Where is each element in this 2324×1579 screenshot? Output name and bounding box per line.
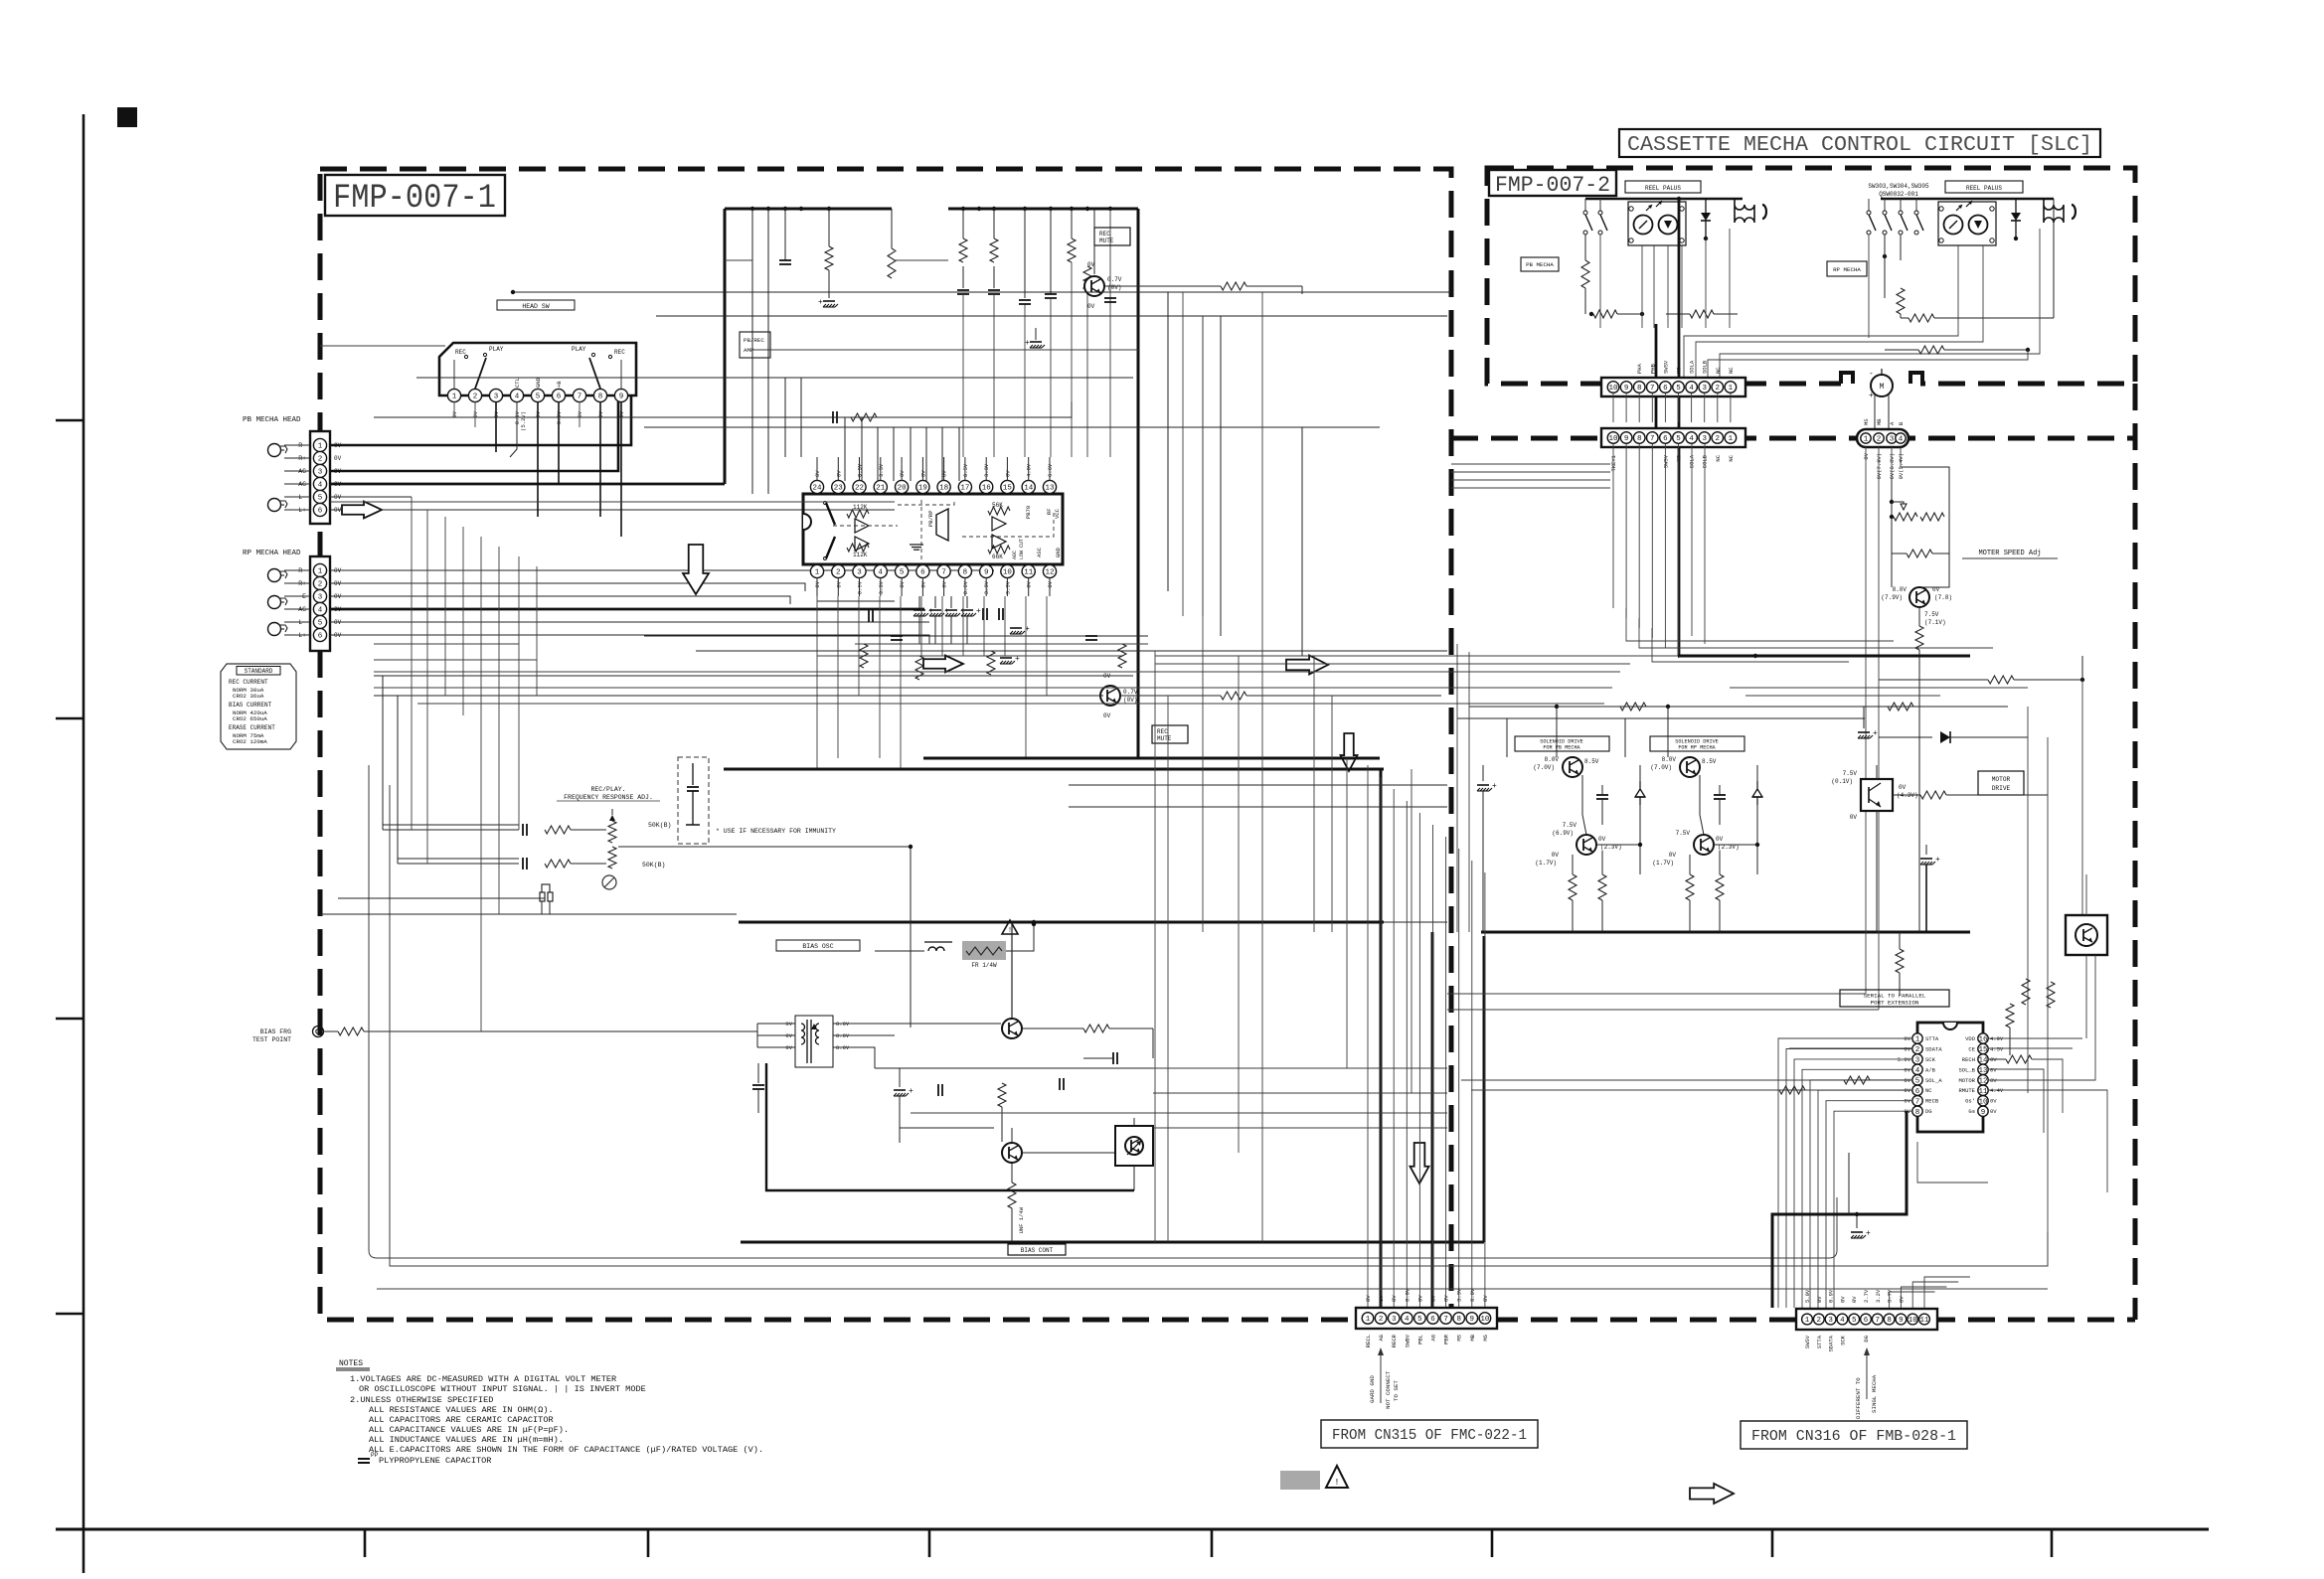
resistor near serial IC 2	[1896, 949, 1904, 973]
svg-text:+: +	[909, 1087, 913, 1096]
resistor solenoid RP 2	[1716, 874, 1724, 900]
svg-text:DIFFERENT TO: DIFFERENT TO	[1855, 1377, 1862, 1419]
svg-text:CRO2 120mA: CRO2 120mA	[233, 738, 267, 745]
wire PB pin6 line	[330, 509, 895, 511]
svg-text:REC CURRENT: REC CURRENT	[229, 679, 268, 686]
svg-text:STTA: STTA	[1816, 1335, 1823, 1348]
svg-text:2.UNLESS OTHERWISE SPECIFIED: 2.UNLESS OTHERWISE SPECIFIED	[350, 1395, 493, 1405]
label box HEAD SW	[497, 300, 575, 310]
svg-text:10: 10	[1978, 1098, 1988, 1106]
resistor right 2	[2047, 982, 2055, 1008]
wire reel bus left	[1585, 198, 1743, 201]
wire mesh left horizontals	[374, 643, 519, 645]
svg-text:FROM CN315 OF FMC-022-1: FROM CN315 OF FMC-022-1	[1332, 1428, 1527, 1444]
svg-text:8: 8	[1637, 385, 1642, 393]
svg-text:REC: REC	[1157, 728, 1168, 735]
connector motor 4-pin	[1857, 429, 1909, 447]
wire loom horizontal pair	[320, 913, 737, 915]
svg-text:CRO2 650uA: CRO2 650uA	[233, 715, 267, 722]
optocoupler reel RP	[1938, 202, 1996, 245]
wire Q4	[1022, 1152, 1115, 1154]
resistor mid R9	[915, 656, 923, 680]
wire thick vertical CN315 pin6	[1431, 932, 1434, 1308]
wire stub	[751, 209, 753, 328]
svg-text:+: +	[818, 298, 823, 307]
optocoupler box bias	[1115, 1126, 1153, 1166]
svg-text:(1.7V): (1.7V)	[1535, 860, 1557, 867]
svg-text:0V: 0V	[1904, 1035, 1910, 1042]
svg-text:ERASE CURRENT: ERASE CURRENT	[229, 724, 275, 731]
label box RP MECHA	[1827, 261, 1867, 276]
svg-text:DG: DG	[1925, 1108, 1932, 1115]
transformer bias osc	[795, 1016, 833, 1067]
svg-text:RP MECHA: RP MECHA	[1833, 266, 1861, 273]
svg-text:12: 12	[1045, 569, 1054, 577]
electrolytic caps below IC row	[918, 596, 920, 608]
switch reel PB 2	[1599, 199, 1601, 211]
label box BIAS OSC	[776, 940, 860, 951]
svg-text:16: 16	[982, 485, 992, 493]
svg-text:NC: NC	[1728, 367, 1735, 374]
label box FROM CN316	[1741, 1421, 1967, 1449]
wire solenoid top runs	[1469, 706, 2008, 708]
svg-text:6: 6	[318, 508, 323, 516]
transistor REC MUTE Q1	[1093, 209, 1095, 274]
wire RP pin2 line	[330, 583, 805, 591]
svg-text:STTA: STTA	[1925, 1035, 1939, 1042]
svg-text:ASC: ASC	[1036, 547, 1043, 557]
wire top supply bus right	[948, 208, 1138, 211]
wire solenoid RP links	[1667, 707, 1669, 757]
svg-text:1: 1	[1366, 1316, 1371, 1324]
svg-text:MOTOR: MOTOR	[1992, 776, 2011, 783]
svg-text:M: M	[1880, 383, 1885, 392]
svg-text:SWSV: SWSV	[1662, 454, 1669, 468]
svg-text:9: 9	[1470, 1316, 1475, 1324]
wire to pot2	[571, 863, 606, 865]
svg-text:FOR PB MECHA: FOR PB MECHA	[1543, 745, 1580, 751]
solenoid coil RP	[2044, 199, 2064, 223]
switch reel RP 4	[1915, 199, 1917, 211]
svg-text:21: 21	[876, 485, 886, 493]
svg-text:GND: GND	[1055, 547, 1062, 557]
IC top pin row 24-13	[810, 480, 823, 493]
electrolytic cap top area	[828, 270, 830, 298]
svg-text:MUTE: MUTE	[1099, 237, 1114, 244]
svg-text:4: 4	[1899, 436, 1904, 444]
wire horizontal run C	[416, 377, 1133, 379]
svg-text:(1.7V): (1.7V)	[1652, 860, 1674, 867]
svg-text:8: 8	[963, 569, 968, 577]
svg-text:Gs': Gs'	[1965, 1098, 1975, 1105]
capacitor C freq1	[522, 824, 524, 836]
svg-text:19: 19	[918, 485, 927, 493]
svg-text:1: 1	[318, 568, 323, 576]
svg-text:0V: 0V	[1087, 303, 1095, 310]
svg-text:0V: 0V	[1378, 1295, 1385, 1302]
svg-text:8: 8	[1637, 435, 1642, 443]
label box FROM CN315	[1321, 1420, 1538, 1448]
svg-text:BIAS CONT: BIAS CONT	[1021, 1247, 1054, 1254]
transistor bias Q3	[1002, 1019, 1022, 1038]
svg-text:5: 5	[318, 620, 323, 628]
wire Q1 collector to resistor	[1104, 285, 1221, 287]
svg-text:1: 1	[1729, 435, 1734, 443]
connector SLC top 10-pin	[1601, 428, 1745, 447]
svg-text:11: 11	[1919, 1317, 1929, 1325]
arrow signal flow down big	[683, 545, 709, 594]
capacitor series RC on 420	[832, 411, 834, 423]
wire lower region verticals	[751, 328, 753, 494]
svg-text:3: 3	[318, 469, 323, 477]
svg-text:7.5V: 7.5V	[1924, 611, 1939, 618]
svg-text:MOTOR: MOTOR	[1958, 1077, 1975, 1084]
test point terminal	[313, 1026, 324, 1037]
svg-text:RECL: RECL	[1365, 1335, 1372, 1347]
svg-text:8.0V: 8.0V	[1662, 756, 1677, 763]
wire thick bus mid 2	[724, 768, 1384, 771]
wire serial region mesh	[1848, 1153, 1850, 1214]
wire R7 right	[1246, 285, 1302, 287]
svg-text:0V(6.8V): 0V(6.8V)	[1889, 453, 1896, 479]
svg-text:DRIVE: DRIVE	[1992, 785, 2011, 792]
svg-text:+B: +B	[556, 381, 563, 388]
svg-text:STANDARD: STANDARD	[245, 668, 273, 675]
IC internal opamp upper-right	[992, 517, 1006, 531]
svg-text:13: 13	[1978, 1067, 1988, 1075]
motor speed adj network	[1901, 467, 1949, 587]
capacitor bias C3	[937, 1084, 939, 1096]
svg-text:BIAS FRG: BIAS FRG	[260, 1028, 291, 1035]
svg-text:0V: 0V	[1391, 1295, 1398, 1302]
capacitors below IC	[982, 608, 984, 620]
resistor motor speed 2	[1907, 550, 1932, 557]
svg-text:10: 10	[1003, 569, 1013, 577]
connector CN315 10-pin	[1356, 1308, 1497, 1329]
resistor top right R6	[1083, 266, 1091, 290]
svg-text:0V(7.9V): 0V(7.9V)	[1876, 453, 1883, 479]
wire between connector rows	[1612, 394, 1614, 422]
svg-text:SCK: SCK	[1925, 1056, 1936, 1063]
svg-text:+: +	[1935, 856, 1940, 865]
wire SLC serial control runs	[1461, 1079, 1911, 1081]
wire RP pin3 line	[330, 596, 790, 604]
wire solenoid PB links	[1556, 707, 1558, 757]
legend warning triangle	[1326, 1466, 1348, 1488]
svg-text:ALL E.CAPACITORS ARE SHOWN IN: ALL E.CAPACITORS ARE SHOWN IN THE FORM O…	[369, 1445, 763, 1455]
svg-text:8.0V: 8.0V	[1893, 586, 1908, 593]
label box REEL PALUS left	[1625, 181, 1701, 193]
wire solenoid extra runs	[1730, 687, 2028, 689]
svg-text:15: 15	[1003, 485, 1013, 493]
wire motor leads	[1874, 395, 1876, 430]
svg-text:0V: 0V	[1482, 1295, 1489, 1302]
legend arrow	[1690, 1484, 1734, 1503]
warning triangle bias	[1002, 920, 1018, 934]
svg-text:2: 2	[318, 581, 323, 589]
note DIFFERENT TO SINGL MECHA	[1866, 1351, 1868, 1399]
transistor bias Q4	[1002, 1143, 1022, 1163]
svg-text:0V: 0V	[1839, 1296, 1846, 1303]
wire mesh verticals left	[411, 497, 413, 830]
svg-text:0V: 0V	[1990, 1108, 1997, 1115]
capacitor mid C6	[868, 610, 870, 622]
svg-text:0V: 0V	[1552, 852, 1560, 859]
svg-text:2.7V: 2.7V	[1863, 1289, 1870, 1303]
switch reel PB 1	[1584, 199, 1586, 211]
svg-text:(7.9V): (7.9V)	[1881, 594, 1903, 601]
IC internal opamp upper-left	[855, 519, 869, 533]
svg-text:REC: REC	[614, 349, 625, 356]
wire mesh long horizontals	[320, 345, 445, 347]
svg-text:4: 4	[1840, 1317, 1845, 1325]
svg-text:50K(B): 50K(B)	[648, 822, 671, 829]
svg-text:66K: 66K	[992, 553, 1003, 560]
svg-text:SOL_A: SOL_A	[1925, 1077, 1942, 1084]
svg-text:PBL: PBL	[1416, 1335, 1423, 1344]
resistor on 711 line	[1888, 703, 1913, 711]
svg-text:ALL CAPACITANCE VALUES ARE IN: ALL CAPACITANCE VALUES ARE IN μF(P=pF).	[369, 1425, 569, 1435]
transistor solenoid RP Q1	[1680, 757, 1700, 777]
resistor reel RP	[1900, 235, 1902, 260]
svg-text:8.0V: 8.0V	[1469, 1288, 1476, 1302]
wire SOLA SOLB drops	[1691, 444, 1693, 636]
wire solenoid block outline	[1506, 718, 1508, 757]
title box CASSETTE MECHA CONTROL CIRCUIT [SLC]	[1619, 129, 2100, 157]
resistor solenoid PB 2	[1598, 874, 1606, 900]
svg-text:3: 3	[1890, 436, 1895, 444]
resistor bias R1	[998, 1083, 1006, 1107]
svg-text:TEST POINT: TEST POINT	[252, 1036, 291, 1043]
svg-text:5: 5	[536, 394, 541, 401]
svg-text:PB/REC: PB/REC	[744, 337, 764, 344]
resistor top area R2	[891, 209, 893, 248]
resistor on 709 line	[1620, 703, 1646, 711]
svg-text:RECH: RECH	[1962, 1056, 1975, 1063]
svg-text:ALL CAPACITORS ARE CERAMIC CAP: ALL CAPACITORS ARE CERAMIC CAPACITOR	[369, 1415, 554, 1425]
connector head switch 9-pin	[439, 343, 636, 395]
svg-text:0.9V: 0.9V	[1828, 1289, 1835, 1303]
svg-text:(7.8): (7.8)	[1934, 594, 1952, 601]
svg-text:(0.1V): (0.1V)	[1831, 778, 1853, 785]
svg-text:+: +	[1873, 729, 1878, 738]
label box PB MECHA	[1521, 257, 1559, 271]
svg-text:7: 7	[1876, 1317, 1881, 1325]
potentiometer motor speed	[1894, 513, 1917, 521]
zener solenoid RP	[1756, 781, 1758, 789]
wire bundle to CN315	[1367, 765, 1369, 1308]
resistor right 1	[2022, 979, 2030, 1005]
capacitor top area C1	[784, 209, 786, 260]
svg-text:9: 9	[1624, 435, 1629, 443]
IC internal head symbol	[936, 509, 948, 541]
wire serial bottom bold	[1772, 1111, 1907, 1308]
capacitor top right C2	[962, 266, 964, 288]
svg-text:PORT EXTENSION: PORT EXTENSION	[1871, 1000, 1919, 1007]
svg-text:50K(B): 50K(B)	[642, 862, 665, 868]
wire Q2 collector right	[1120, 695, 1221, 697]
arrow signal flow mid-right	[1286, 656, 1328, 675]
wire thick vertical REC MUTE rail	[1137, 209, 1140, 758]
label box MOTOR DRIVE	[1978, 771, 2024, 795]
resistor mid R11	[1118, 644, 1126, 668]
wire SLC left edge verticals	[1456, 644, 1458, 932]
IC internal switch lower	[826, 537, 835, 558]
svg-text:1: 1	[1729, 385, 1734, 393]
potentiometer 50K upper	[608, 821, 616, 843]
svg-text:0V: 0V	[1598, 836, 1606, 843]
svg-text:3: 3	[1702, 435, 1707, 443]
wire PB pin5	[330, 496, 412, 498]
svg-text:0V: 0V	[334, 455, 342, 462]
label box FMP-007-2	[1489, 170, 1616, 196]
wire long horizontal bus B	[656, 315, 1447, 317]
IC internal opamp lower-right	[992, 535, 1006, 549]
wire IC bottom pins down	[816, 577, 818, 596]
resistor motor drive top	[1988, 676, 2014, 684]
svg-text:7.5V: 7.5V	[1676, 830, 1691, 837]
svg-text:11: 11	[1024, 569, 1034, 577]
frame bottom border line	[56, 1528, 2209, 1531]
svg-text:7: 7	[941, 569, 946, 577]
svg-text:CRO2 36uA: CRO2 36uA	[233, 693, 264, 700]
svg-text:11: 11	[1978, 1088, 1988, 1096]
svg-text:MOTER SPEED Adj: MOTER SPEED Adj	[1978, 550, 2041, 557]
wire PB head leads	[284, 444, 310, 446]
wire top columns down to IC	[962, 294, 964, 457]
svg-text:4: 4	[1689, 435, 1694, 443]
jack RP head L	[268, 623, 281, 636]
wire motor connector drops	[1865, 447, 1867, 994]
svg-text:PLAY: PLAY	[489, 346, 504, 353]
solenoid coil PB	[1735, 199, 1754, 223]
connector CN316 11-pin	[1796, 1309, 1937, 1330]
svg-text:SWBV: SWBV	[1404, 1334, 1411, 1347]
component small fuse pair	[542, 884, 550, 892]
capacitor mid C8	[1085, 635, 1097, 637]
wire Q3 around	[1022, 1027, 1083, 1029]
wire thick vertical right of FMP1	[1483, 936, 1486, 1242]
svg-text:0V: 0V	[1416, 1295, 1423, 1302]
svg-text:DG: DG	[1863, 1336, 1870, 1342]
dashed border FMP-007-1 board	[320, 169, 1451, 1320]
svg-text:7: 7	[1650, 385, 1655, 393]
dashed box immunity cap	[678, 757, 709, 844]
svg-text:9: 9	[619, 394, 624, 401]
svg-text:5: 5	[1676, 385, 1681, 393]
svg-text:5: 5	[900, 569, 905, 577]
resistor mid R10	[987, 651, 995, 675]
svg-text:2: 2	[1877, 436, 1882, 444]
optocoupler reel PB	[1628, 202, 1686, 245]
resistor top right R5	[1071, 209, 1073, 238]
svg-text:6: 6	[1915, 1088, 1920, 1096]
wire mesh right of FMP1	[1451, 463, 1610, 465]
svg-text:7: 7	[578, 394, 582, 401]
svg-text:GND: GND	[535, 377, 542, 388]
svg-text:REC: REC	[455, 349, 466, 356]
svg-text:PLAY: PLAY	[572, 346, 586, 353]
svg-text:VCC: VCC	[1054, 508, 1061, 519]
electrolytic mid E2	[1000, 657, 1012, 659]
svg-text:4: 4	[318, 482, 323, 490]
wire thick bus bias cont	[741, 1241, 1484, 1244]
zener solenoid PB	[1639, 781, 1641, 789]
electrolytic solenoid left	[1477, 784, 1489, 786]
svg-text:2: 2	[836, 569, 841, 577]
svg-text:7.5V: 7.5V	[1843, 770, 1858, 777]
svg-text:REC: REC	[1099, 231, 1110, 237]
svg-text:12: 12	[1978, 1077, 1987, 1085]
svg-text:0V(5.4V): 0V(5.4V)	[1898, 453, 1905, 479]
svg-text:18: 18	[939, 485, 948, 493]
svg-text:QSW0832-001: QSW0832-001	[1879, 191, 1918, 198]
svg-text:3: 3	[1702, 385, 1707, 393]
svg-text:SDATA: SDATA	[1828, 1335, 1835, 1351]
svg-text:8: 8	[598, 394, 603, 401]
notes polypropylene symbol	[358, 1458, 370, 1460]
svg-text:13: 13	[1045, 485, 1055, 493]
svg-text:4: 4	[879, 569, 884, 577]
arrow signal flow PB	[342, 502, 382, 519]
wire Q3 to bias bus	[1011, 922, 1013, 1018]
svg-text:1: 1	[1864, 436, 1869, 444]
svg-text:3: 3	[857, 569, 862, 577]
svg-text:MS: MS	[1676, 367, 1683, 374]
svg-text:3: 3	[1392, 1316, 1397, 1324]
svg-text:6: 6	[1663, 435, 1668, 443]
svg-text:8.0V: 8.0V	[1404, 1288, 1411, 1302]
capacitor top right C4	[1050, 209, 1052, 294]
wire PB pin4 bus	[330, 483, 725, 486]
svg-text:6: 6	[1864, 1317, 1869, 1325]
frame left tick marks	[56, 419, 83, 421]
svg-text:2: 2	[1817, 1317, 1822, 1325]
svg-text:FR 1/4W: FR 1/4W	[971, 962, 997, 969]
svg-text:(6.9V): (6.9V)	[1552, 830, 1574, 837]
wire RP head leads	[284, 569, 310, 571]
svg-text:SOLA: SOLA	[1689, 360, 1696, 374]
svg-text:3: 3	[318, 594, 323, 602]
wire test point run	[364, 1030, 757, 1032]
wire below-IC bus	[817, 600, 895, 602]
resistor reel PB	[1584, 235, 1586, 260]
wire PB pin3 stub	[330, 401, 618, 471]
svg-text:LOW CUT: LOW CUT	[1019, 539, 1025, 559]
highlight gray resistor FR	[962, 941, 1006, 960]
wire top supply bus left	[725, 208, 892, 211]
svg-text:1: 1	[452, 394, 457, 401]
IC internal switch upper	[826, 503, 835, 525]
svg-text:4: 4	[1915, 1067, 1920, 1075]
frame left border line	[83, 114, 85, 1573]
svg-text:PB/RP: PB/RP	[927, 510, 934, 527]
svg-text:VDD: VDD	[1965, 1035, 1976, 1042]
wire reel PB mesh	[1584, 288, 1586, 314]
wire below-IC horizontals	[855, 643, 1148, 645]
switch reel RP 3	[1900, 199, 1902, 211]
transistor box right edge	[2066, 915, 2107, 955]
svg-text:8.5V: 8.5V	[1584, 758, 1599, 765]
svg-text:ALL INDUCTANCE VALUES ARE IN μ: ALL INDUCTANCE VALUES ARE IN μH(m=mH).	[369, 1435, 564, 1445]
svg-text:0V: 0V	[1898, 1296, 1905, 1303]
label box PB/REC AMP	[740, 332, 770, 358]
svg-text:(0V): (0V)	[1107, 284, 1121, 291]
svg-text:0V: 0V	[1365, 1295, 1372, 1302]
potentiometer 50K lower	[608, 847, 616, 868]
arrow signal flow mid-left	[923, 656, 963, 673]
label box BIAS CONT	[1008, 1244, 1066, 1255]
